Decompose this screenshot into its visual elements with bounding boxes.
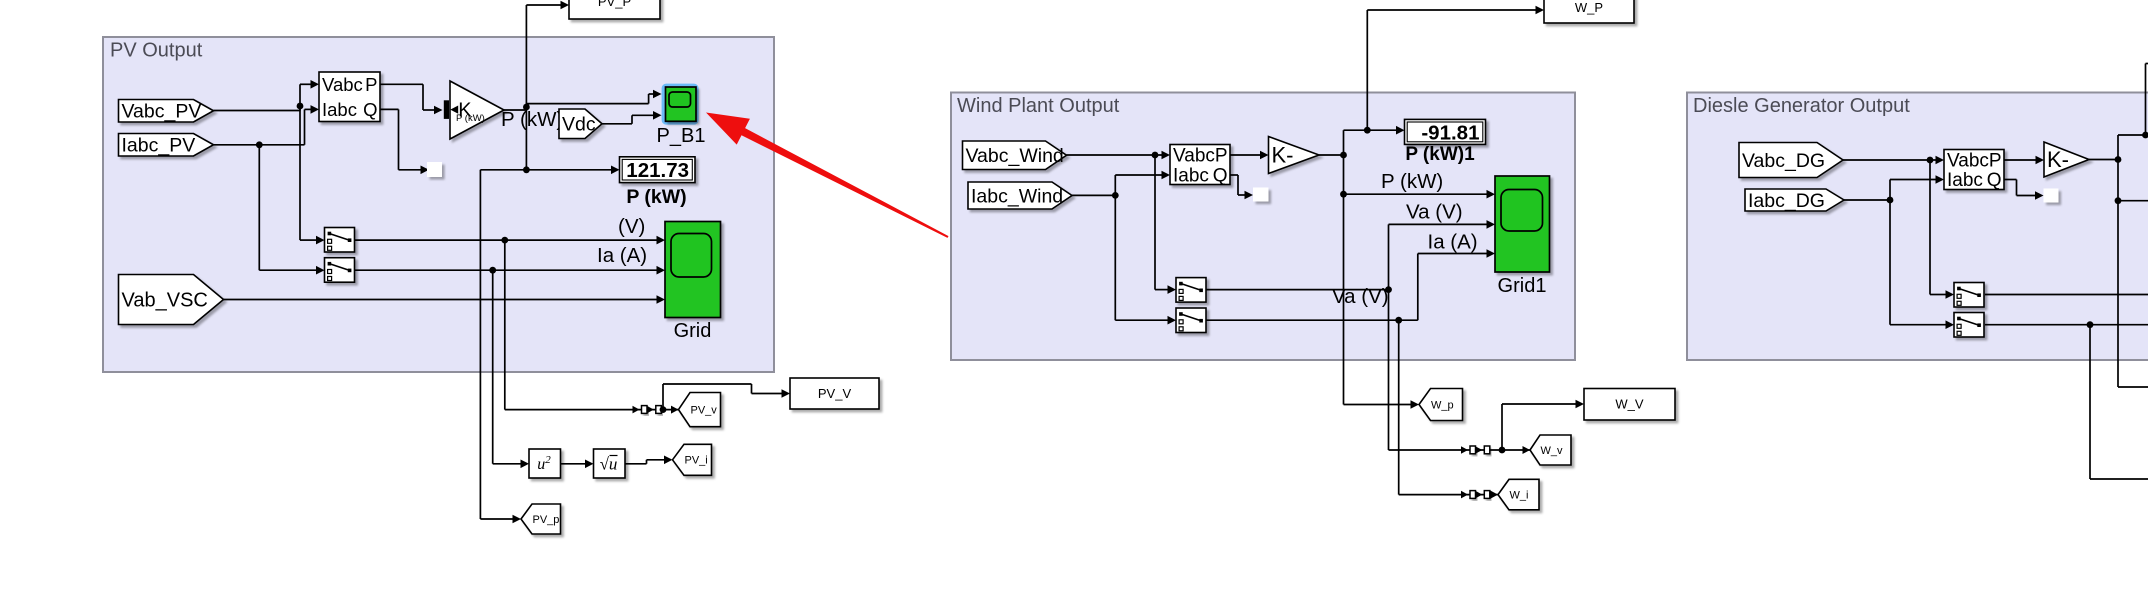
from tag Vabc_PV [119, 100, 214, 123]
wire wind P down to goto W_p [1344, 194, 1420, 409]
math block sqrt u [594, 449, 626, 478]
goto tag PV_p [521, 504, 561, 534]
gain PV K text [456, 99, 485, 124]
svg-text:Va (V): Va (V) [1406, 201, 1463, 224]
svg-text:PV_V: PV_V [818, 386, 852, 401]
conversion blocks on PV_v wire [633, 406, 679, 414]
svg-text:Vabc: Vabc [1173, 146, 1215, 167]
terminator white square DG [2044, 189, 2059, 203]
wire P to display [526, 166, 619, 175]
wire DG gain output [2089, 159, 2118, 161]
scope Grid1 [1495, 176, 1550, 272]
area title Diesle Generator Output [1693, 95, 1910, 117]
wire DG switch 1 output to edge [1985, 294, 2148, 296]
svg-text:Grid: Grid [674, 320, 712, 342]
svg-text:K-: K- [1272, 142, 1294, 167]
node DG top right [2142, 132, 2148, 139]
wire PV_v junction up to goto PV_V [663, 384, 790, 410]
manual switch DG 2 [1954, 313, 1984, 338]
svg-text:Vabc: Vabc [1947, 151, 1989, 172]
wire wind P down to Grid1 input 1 [1344, 155, 1496, 199]
svg-text:W_P: W_P [1575, 0, 1603, 15]
wire Vabc_Wind branch to switch 1 [1155, 155, 1176, 294]
wire gain output to junction [504, 109, 526, 111]
wire DG top corner [2118, 64, 2148, 136]
svg-text:P_B1: P_B1 [657, 125, 706, 147]
signal label Va (V) lower [1332, 285, 1389, 308]
goto tag PV_v [679, 393, 721, 427]
node Iabc_DG branch [1887, 197, 1894, 204]
wire DG Ia branch down to edge [2090, 325, 2148, 479]
svg-text:PV_P: PV_P [598, 0, 631, 9]
node DG mid junction [2115, 197, 2122, 204]
svg-text:K-: K- [2047, 147, 2069, 172]
wire wind Ia down to W_i row [1398, 320, 1400, 494]
wire into goto W_i [1491, 491, 1499, 499]
area title PV Output [110, 40, 203, 62]
svg-text:W_i: W_i [1510, 489, 1529, 501]
goto block W_P (clipped top) [1544, 0, 1634, 23]
wire Vabc_PV branch down to switch 1 [300, 106, 325, 244]
label P (kW) under display [626, 186, 686, 208]
wire wind Va down to W_v row [1388, 290, 1390, 450]
node wind P junction [1340, 152, 1347, 159]
svg-text:(V): (V) [618, 215, 645, 238]
gain PV input mark [444, 100, 458, 119]
wire wind gain output [1319, 154, 1344, 156]
svg-text:Va (V): Va (V) [1332, 285, 1389, 308]
wire V branch down to PV_v row [505, 240, 633, 410]
svg-text:Diesle Generator Output: Diesle Generator Output [1693, 95, 1910, 117]
node W_v junction [1499, 447, 1506, 454]
wire power Q output to terminator [380, 109, 429, 174]
signal label P (kW) wind [1381, 170, 1443, 193]
red annotation arrow [706, 113, 949, 238]
node PV_v junction [660, 406, 667, 413]
svg-text:Iabc_Wind: Iabc_Wind [971, 185, 1063, 207]
terminator white square PV [427, 162, 442, 177]
manual switch PV 1 [325, 228, 355, 253]
terminator white square Wind [1253, 188, 1269, 202]
wire sqrt to goto PV_i [625, 456, 673, 465]
goto block W_V [1584, 389, 1675, 421]
scope Grid [665, 222, 721, 318]
wire switch 2 to Grid scope input 2 [355, 266, 666, 275]
node DG P junction [2115, 156, 2122, 163]
wire Vdc to scope P_B1 input 2 [602, 111, 662, 124]
vertical net DG right [2117, 135, 2119, 387]
display block 121.73 [620, 157, 696, 183]
goto block PV_P (clipped top) [569, 0, 660, 19]
node Iabc_Wind branch [1112, 192, 1119, 199]
from tag Iabc_PV [119, 134, 214, 157]
svg-text:PV_v: PV_v [691, 404, 718, 416]
manual switch PV 2 [325, 258, 355, 283]
svg-text:-91.81: -91.81 [1421, 121, 1479, 144]
svg-text:P (kW): P (kW) [456, 113, 485, 124]
node Vabc_DG branch [1927, 157, 1934, 164]
svg-text:P (kW): P (kW) [1381, 170, 1443, 193]
wire Iabc_Wind branch to switch 2 [1115, 195, 1176, 324]
svg-text:121.73: 121.73 [626, 159, 689, 182]
node on Iabc_PV wire [256, 141, 263, 148]
svg-text:Vdc: Vdc [562, 114, 596, 136]
wire DG mid to edge [2118, 200, 2148, 202]
wire DG power P to gain [2004, 156, 2044, 165]
svg-text:P: P [1215, 146, 1228, 167]
node Vabc_Wind branch [1152, 152, 1159, 159]
svg-text:Iabc_PV: Iabc_PV [122, 135, 196, 157]
node on Vabc_PV branch [297, 103, 304, 110]
svg-text:PV_i: PV_i [685, 455, 708, 467]
wire wind P up to display [1344, 126, 1405, 155]
node P junction upper [523, 104, 530, 111]
subsystem area Wind Plant Output [951, 93, 1575, 361]
wire power P output to gain [380, 84, 443, 114]
wire into goto PV_v [671, 406, 679, 414]
svg-text:P (kW)1: P (kW)1 [1405, 144, 1475, 165]
from tag Iabc_Wind [968, 182, 1072, 209]
svg-text:Wind Plant Output: Wind Plant Output [957, 95, 1120, 117]
gain block PV K [450, 81, 504, 139]
svg-text:PV Output: PV Output [110, 40, 203, 62]
svg-text:Q: Q [1987, 170, 2002, 191]
goto tag PV_i [673, 444, 712, 475]
label Grid [674, 320, 712, 342]
svg-text:Grid1: Grid1 [1498, 275, 1547, 297]
wire wind switch 2 output [1206, 249, 1495, 320]
wire P to scope P_B1 input 1 [526, 90, 661, 104]
svg-text:W_v: W_v [1541, 445, 1564, 457]
wire Iabc_DG branch to switch 2 [1890, 200, 1954, 329]
signal label Ia (A) wind [1428, 231, 1478, 254]
wire switch 1 to Grid scope input 1 [355, 236, 666, 245]
svg-text:√u: √u [600, 455, 618, 474]
wire DG bottom corner to edge [2118, 386, 2148, 388]
area title Wind Plant Output [957, 95, 1120, 117]
wire into goto W_v [1523, 446, 1531, 454]
svg-text:Ia (A): Ia (A) [1428, 231, 1478, 254]
goto tag W_i [1498, 479, 1539, 510]
node wind Ia junction [1395, 317, 1402, 324]
signal label P (kW) [501, 108, 563, 131]
wire u2 to sqrt block [561, 460, 594, 469]
wire wind power P to gain [1230, 151, 1269, 160]
svg-text:Q: Q [363, 99, 377, 120]
manual switch Wind 1 [1176, 278, 1206, 303]
wire Vabc_DG to power block [1843, 156, 1944, 165]
goto tag W_v [1530, 435, 1571, 465]
svg-text:P (kW): P (kW) [501, 108, 563, 131]
svg-text:Vabc: Vabc [322, 74, 363, 95]
scope P_B1 selection highlight [664, 86, 697, 123]
from tag Vdc [559, 109, 602, 139]
wire W_v junction up to goto W_V [1502, 400, 1584, 450]
svg-text:Iabc: Iabc [322, 99, 357, 120]
node wind P lower junction [1340, 191, 1347, 198]
gain block DG K- [2044, 142, 2089, 177]
node DG Ia branch [2087, 321, 2094, 328]
wire P branch to goto PV_p [480, 170, 526, 524]
subsystem area PV Output [103, 37, 774, 372]
from tag Vabc_Wind [963, 141, 1067, 170]
vertical net P signal [525, 5, 527, 170]
wire DG power Q to terminator [2004, 180, 2044, 200]
wire Vabc_PV to power block [214, 80, 320, 111]
svg-text:Q: Q [1213, 166, 1228, 187]
power measurement block Wind [1170, 145, 1230, 187]
node wind Va junction [1385, 286, 1392, 293]
svg-text:Vabc_DG: Vabc_DG [1742, 150, 1825, 172]
wire Iabc_DG to power block [1844, 175, 1944, 200]
subsystem area Diesle Generator Output [1687, 93, 2148, 361]
signal label Va (V) [1406, 201, 1463, 224]
svg-text:P: P [365, 74, 377, 95]
svg-text:Vabc_Wind: Vabc_Wind [966, 145, 1064, 167]
wire Iabc_PV to power block [214, 105, 320, 145]
from tag Vab_VSC [119, 275, 224, 325]
label P (kW)1 under display [1405, 144, 1475, 165]
svg-text:W_p: W_p [1431, 399, 1454, 411]
goto block PV_V [790, 378, 879, 409]
node P junction lower [523, 166, 530, 173]
svg-text:PV_p: PV_p [533, 514, 560, 526]
math block u squared [529, 449, 561, 478]
svg-text:Ia (A): Ia (A) [597, 244, 647, 267]
conversion blocks on W_i wire [1399, 491, 1498, 499]
svg-text:Vabc_PV: Vabc_PV [122, 101, 202, 123]
wire wind power Q to terminator [1230, 175, 1253, 199]
power measurement block DG [1944, 150, 2004, 192]
wire P to goto PV_P [526, 1, 569, 10]
node I branch [489, 267, 496, 274]
svg-text:Iabc_DG: Iabc_DG [1748, 190, 1825, 212]
label P_B1 [657, 125, 706, 147]
goto tag W_p [1419, 389, 1463, 421]
node wind display junction [1364, 127, 1371, 134]
svg-text:P: P [1989, 151, 2002, 172]
label Grid1 [1498, 275, 1547, 297]
wire Iabc_PV branch down to switch 2 [259, 145, 324, 275]
gain block Wind K- [1269, 137, 1320, 174]
conversion blocks on W_v wire [1389, 446, 1531, 454]
signal label Ia (A) [597, 244, 647, 267]
wire Vabc_DG branch to switch 1 [1930, 160, 1954, 299]
svg-text:Iabc: Iabc [1947, 170, 1983, 191]
wire wind Va up to Grid1 input 2 [1389, 220, 1496, 290]
scope P_B1 [666, 87, 697, 121]
wire Iabc_Wind to power block [1072, 171, 1170, 196]
svg-text:Iabc: Iabc [1173, 166, 1209, 187]
svg-text:Vab_VSC: Vab_VSC [122, 290, 208, 312]
manual switch Wind 2 [1176, 308, 1206, 333]
power measurement block PV [319, 72, 380, 122]
manual switch DG 1 [1954, 283, 1984, 308]
wire I branch down to u2 block [493, 270, 529, 468]
signal label (V) [618, 215, 645, 238]
wire wind switch 1 output [1206, 289, 1389, 291]
svg-text:W_V: W_V [1615, 397, 1644, 412]
display block -91.81 [1405, 119, 1486, 144]
from tag Vabc_DG [1739, 143, 1843, 178]
wire Vab_VSC to Grid scope input 3 [224, 295, 666, 304]
wire wind P up to goto W_P [1367, 6, 1544, 131]
wire DG switch 2 output to edge [1985, 324, 2148, 326]
from tag Iabc_DG [1745, 189, 1844, 212]
wire Vabc_Wind to power block [1067, 151, 1171, 160]
node V branch [501, 237, 508, 244]
svg-text:P (kW): P (kW) [626, 186, 686, 208]
